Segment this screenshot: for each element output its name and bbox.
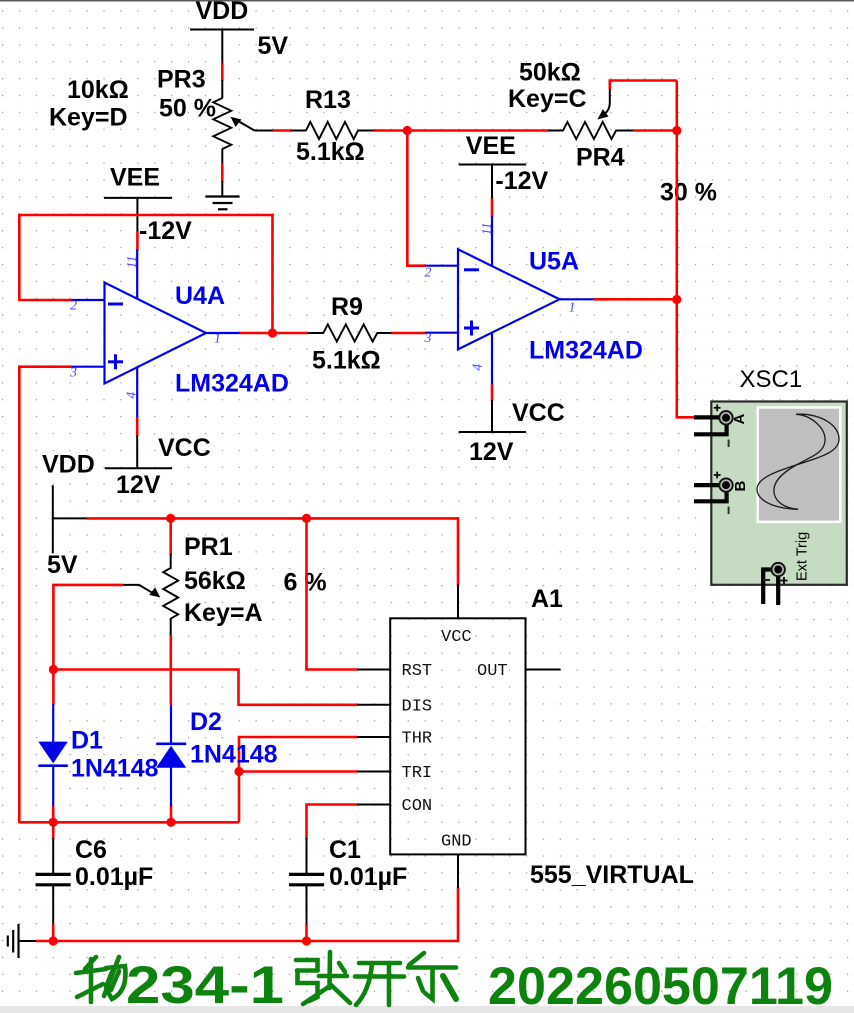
svg-text:4: 4 [125,392,140,399]
svg-text:THR: THR [402,730,433,749]
svg-text:234-1: 234-1 [126,956,284,1013]
svg-text:VEE: VEE [466,132,516,160]
wire PR3 to ground [221,163,224,182]
svg-text:Ext Trig: Ext Trig [795,532,811,581]
svg-text:1N4148: 1N4148 [190,741,278,769]
wire R9 to U5A noninverting input [391,332,425,335]
wire node down to D1 [52,670,55,705]
svg-text:XSC1: XSC1 [740,366,803,393]
555 TRI pin stub [357,771,390,773]
wire PR4 right to node [633,129,677,132]
wire ground bus [36,940,458,943]
node U5A output [672,295,681,304]
svg-text:6 %: 6 % [284,569,327,597]
svg-text:12V: 12V [116,471,161,499]
555 GND pin stub [457,854,459,888]
svg-text:PR4: PR4 [576,144,625,172]
svg-text:C6: C6 [75,836,107,864]
power VDD top [190,0,288,64]
svg-text:1: 1 [569,301,576,316]
ground under PR3 [206,181,240,209]
555 RST pin stub [357,669,390,671]
wire node to PR4 [407,129,549,132]
wire VDD to PR3 [221,63,224,82]
svg-text:R9: R9 [331,293,363,321]
svg-text:LM324AD: LM324AD [175,370,289,398]
svg-text:Key=C: Key=C [508,85,587,113]
potentiometer PR3 10k Key=D 50% [49,66,274,164]
node D1/bus [49,818,58,827]
scope terminal Ext Trig [763,532,811,605]
node PR4 right [672,126,681,135]
svg-text:U4A: U4A [175,282,225,310]
svg-text:A: A [731,414,748,425]
svg-text:VCC: VCC [158,434,211,462]
svg-text:5V: 5V [258,32,289,60]
power VEE U4A [104,163,192,245]
wire PR3 wiper to R13 [273,129,292,132]
svg-text:VCC: VCC [512,399,565,427]
svg-text:12V: 12V [469,438,514,466]
svg-text:GND: GND [441,833,472,852]
wire VDD supply bus [87,517,459,520]
svg-text:VDD: VDD [196,0,249,25]
wire bus to C6 [52,822,55,839]
svg-text:C1: C1 [329,836,361,864]
wire R13 to node [374,129,408,132]
resistor R9 5.1k [273,293,392,375]
svg-text:D2: D2 [190,708,222,736]
scope terminal A [694,404,748,447]
svg-text:VDD: VDD [42,450,95,478]
annotation hanzi wu [76,957,125,1002]
555 CON pin stub [357,804,390,806]
svg-text:PR3: PR3 [157,66,206,94]
wire PR1 top [169,518,172,554]
capacitor C6 0.01uF [36,836,154,925]
svg-text:PR1: PR1 [184,533,233,561]
svg-text:0.01µF: 0.01µF [75,863,153,891]
wire VEE to U4A pin 11 [136,232,139,251]
capacitor C1 0.01uF [289,836,407,925]
wire TRI net [239,770,358,773]
svg-text:TRI: TRI [402,764,433,783]
power VCC U5A [459,399,565,466]
svg-text:-12V: -12V [139,217,192,245]
svg-text:555_VIRTUAL: 555_VIRTUAL [530,861,694,889]
wire U4A pin 4 to VCC [136,417,139,436]
wire C6 to ground bus [52,924,55,941]
svg-text:U5A: U5A [529,248,579,276]
window bottom band [0,1006,854,1013]
svg-text:CON: CON [402,797,433,816]
node bus/RST [302,514,311,523]
node R13/PR4/U5A [403,126,412,135]
wire right bus down to scope [677,300,695,418]
node C1/ground bus [302,936,311,945]
node C6/ground bus [49,936,58,945]
svg-text:1: 1 [214,332,221,347]
diode D2 1N4148 [156,704,277,807]
svg-text:5V: 5V [47,551,78,579]
node bus/PR1 [166,514,175,523]
svg-text:11: 11 [125,256,140,269]
op-amp U5A [424,216,643,385]
annotation hanzi zhang [296,952,350,1004]
svg-text:DIS: DIS [402,697,433,716]
svg-text:Key=A: Key=A [184,599,263,627]
svg-text:VEE: VEE [110,163,160,191]
svg-text:2: 2 [425,266,432,281]
annotation hanzi le [408,953,456,999]
power VCC U4A [105,434,211,499]
svg-text:LM324AD: LM324AD [529,337,643,365]
wire right vertical feedback [675,81,678,301]
svg-text:56kΩ: 56kΩ [184,567,246,595]
wire U4A feedback loop [19,215,272,333]
timer A1 555_VIRTUAL [390,585,694,889]
op-amp U4A [69,250,289,419]
annotation hanzi kai [355,963,404,1005]
svg-text:0.01µF: 0.01µF [329,863,407,891]
wire THR net [239,737,358,822]
555 THR pin stub [357,736,390,738]
wire D1 to bus [52,806,55,823]
wire node down to U5A inverting input [407,131,425,266]
diode D1 1N4148 [38,704,158,807]
wire C1 to ground bus [305,924,308,941]
wire CON net [307,805,358,840]
svg-text:202260507119: 202260507119 [488,957,833,1013]
svg-text:1N4148: 1N4148 [71,755,159,783]
wire U4A output to node [240,332,274,335]
svg-text:10kΩ: 10kΩ [67,76,129,104]
svg-text:3: 3 [424,331,432,346]
oscilloscope XSC1 [711,366,847,585]
power VDD bottom [42,450,95,553]
555 OUT pin stub [526,669,561,671]
wire RST net [307,518,358,669]
node THR/TRI [234,767,243,776]
wire U5A pin 4 to VCC [491,384,494,401]
wire VEE to U5A pin 11 [491,198,494,217]
svg-text:50kΩ: 50kΩ [519,59,581,87]
potentiometer PR1 56k Key=A 6% [123,533,327,636]
wire CON to C1 [306,838,308,873]
svg-text:B: B [732,481,749,492]
svg-text:RST: RST [402,662,433,681]
wire bus down to 555 VCC [457,517,460,585]
svg-text:4: 4 [471,364,486,371]
svg-text:30 %: 30 % [660,179,717,207]
wire 555 GND down to bus [457,887,460,942]
wire PR4 wiper up and right [610,81,677,90]
555 VCC pin stub [457,585,459,619]
svg-text:11: 11 [480,222,495,235]
svg-text:5.1kΩ: 5.1kΩ [312,347,381,375]
svg-text:Key=D: Key=D [49,104,128,132]
ground bottom left [8,924,37,958]
node 5V/DIS [49,665,58,674]
wire DIS net [53,670,357,705]
window top border [0,0,854,2]
svg-text:5.1kΩ: 5.1kΩ [296,138,365,166]
power VEE U5A [459,132,549,200]
svg-text:D1: D1 [71,727,103,755]
node D2/bus [166,818,175,827]
wire U4A noninverting input [19,367,71,823]
wire PR1 bottom to D2 [170,635,173,705]
scope terminal B [694,472,749,514]
svg-text:R13: R13 [305,86,351,114]
svg-text:A1: A1 [531,585,563,613]
svg-text:VCC: VCC [441,628,472,647]
svg-text:-12V: -12V [495,167,548,195]
wire 5V to PR1 wiper [53,585,123,670]
wire timing bus [19,821,239,824]
potentiometer PR4 50k Key=C 30% [508,59,717,207]
resistor R13 5.1k [291,86,375,166]
555 DIS pin stub [357,704,390,706]
svg-text:OUT: OUT [477,662,508,681]
svg-text:50 %: 50 % [159,94,216,122]
wire U5A output to right bus [593,298,677,301]
wire D2 to bus [170,806,173,823]
node U4A output [268,328,277,337]
